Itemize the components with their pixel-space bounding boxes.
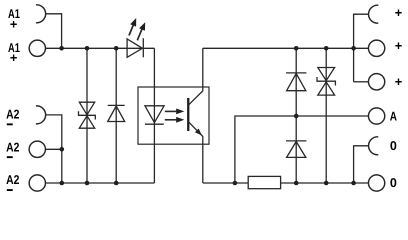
junction dot xyxy=(294,46,299,51)
wire top-left rail xyxy=(46,47,155,49)
svg-text:A2: A2 xyxy=(6,106,19,121)
junction dot xyxy=(114,46,119,51)
LED arrow 1 head xyxy=(130,18,136,27)
LED arrow 2 head xyxy=(139,22,145,31)
junction dot xyxy=(294,114,299,119)
junction dot xyxy=(294,181,299,186)
opto arrow 1 head xyxy=(176,109,184,115)
terminal 0 arc (row5 right) xyxy=(369,137,379,155)
svg-text:+: + xyxy=(10,50,17,65)
terminal A1 arc (row1 left) xyxy=(36,5,46,23)
terminal A circle (row4 right) xyxy=(368,108,384,124)
wire output bottom rail xyxy=(203,182,368,184)
diode D3 symbol xyxy=(286,72,306,74)
optocoupler LED symbol xyxy=(145,106,164,123)
terminal A1 circle (row2 left) xyxy=(29,40,45,56)
diode D4 symbol xyxy=(286,140,306,142)
terminal + arc (row1 right) xyxy=(369,5,379,23)
wire A1 arc to drop xyxy=(46,14,62,49)
phototransistor Q1 emitter xyxy=(188,122,203,183)
emitter arrowhead xyxy=(195,129,202,136)
suppressor diode D5 symbol xyxy=(318,68,335,81)
freewheel diode D3 chain vertical xyxy=(295,48,297,183)
suppressor diode D5 vertical xyxy=(325,48,327,183)
wire + circle3 to bracket xyxy=(354,81,369,83)
svg-text:+: + xyxy=(10,16,17,31)
wire bottom-left rail xyxy=(46,182,155,184)
phototransistor base bar xyxy=(187,98,189,131)
junction dot xyxy=(60,147,65,152)
terminal A2 circle (row5 left) xyxy=(29,175,45,191)
svg-text:A2: A2 xyxy=(6,139,19,154)
wire + arc to bracket xyxy=(354,14,369,82)
optocoupler U1 box xyxy=(138,87,209,144)
minus sign row4 xyxy=(7,156,13,158)
optocoupler light arrow 1 xyxy=(165,110,178,112)
wire LED cathode drop into optocoupler xyxy=(153,48,155,183)
terminal + circle (row3 right) xyxy=(368,74,384,90)
wire A2 arc to bracket xyxy=(46,115,62,183)
LED arrow 1 xyxy=(129,23,134,36)
terminal A2 circle (row4 left) xyxy=(29,141,45,157)
junction dot xyxy=(60,181,65,186)
minus sign row3 xyxy=(7,123,13,125)
junction dot xyxy=(324,181,329,186)
diode D2 vertical xyxy=(115,48,117,183)
junction dot xyxy=(85,181,90,186)
junction dot xyxy=(233,181,238,186)
resistor R1 xyxy=(248,176,280,188)
junction dot xyxy=(114,181,119,186)
minus sign row5 xyxy=(7,189,13,191)
diode D2 symbol xyxy=(108,104,125,106)
opto arrow 2 head xyxy=(176,117,184,123)
svg-text:+: + xyxy=(395,5,402,20)
svg-text:0: 0 xyxy=(390,175,397,190)
optocoupler light arrow 2 xyxy=(165,119,178,121)
terminal A2 arc (row3 left) xyxy=(36,106,46,124)
svg-text:+: + xyxy=(395,74,402,89)
wire TVS D1 vertical xyxy=(86,48,88,183)
svg-text:+: + xyxy=(395,38,402,53)
wire A output line xyxy=(235,116,368,183)
wire 0 arc to bracket xyxy=(354,146,369,183)
junction dot xyxy=(85,46,90,51)
terminal + circle (row2 right) xyxy=(368,40,384,56)
junction dot xyxy=(324,46,329,51)
suppressor diode D1 symbol xyxy=(79,102,94,115)
junction dot xyxy=(59,46,64,51)
svg-text:A2: A2 xyxy=(6,172,19,187)
phototransistor Q1 collector xyxy=(188,48,203,105)
terminal 0 circle (row6 right) xyxy=(368,175,384,191)
LED arrow 2 xyxy=(137,28,142,41)
junction dot xyxy=(351,181,356,186)
wire + rail (output top) xyxy=(203,47,368,49)
LED indicator on input rail xyxy=(127,39,142,57)
svg-text:0: 0 xyxy=(390,138,397,153)
junction dot xyxy=(351,46,356,51)
svg-text:A: A xyxy=(390,108,397,123)
wire A2 mid to bracket xyxy=(46,148,62,150)
